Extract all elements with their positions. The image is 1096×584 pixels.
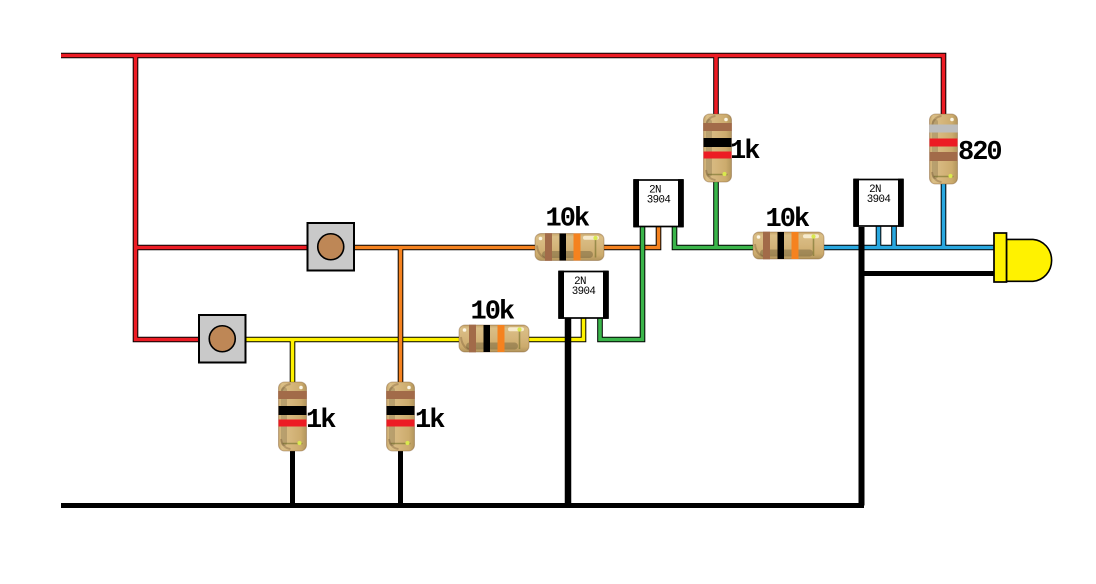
svg-text:3904: 3904 [647,195,671,207]
svg-text:1k: 1k [730,137,760,167]
svg-text:1k: 1k [415,406,445,436]
svg-text:3904: 3904 [572,286,596,298]
svg-text:10k: 10k [546,205,590,235]
svg-text:820: 820 [958,138,1001,168]
svg-text:10k: 10k [766,205,810,235]
svg-text:1k: 1k [306,406,336,436]
svg-text:3904: 3904 [867,194,891,206]
svg-text:10k: 10k [471,298,515,328]
